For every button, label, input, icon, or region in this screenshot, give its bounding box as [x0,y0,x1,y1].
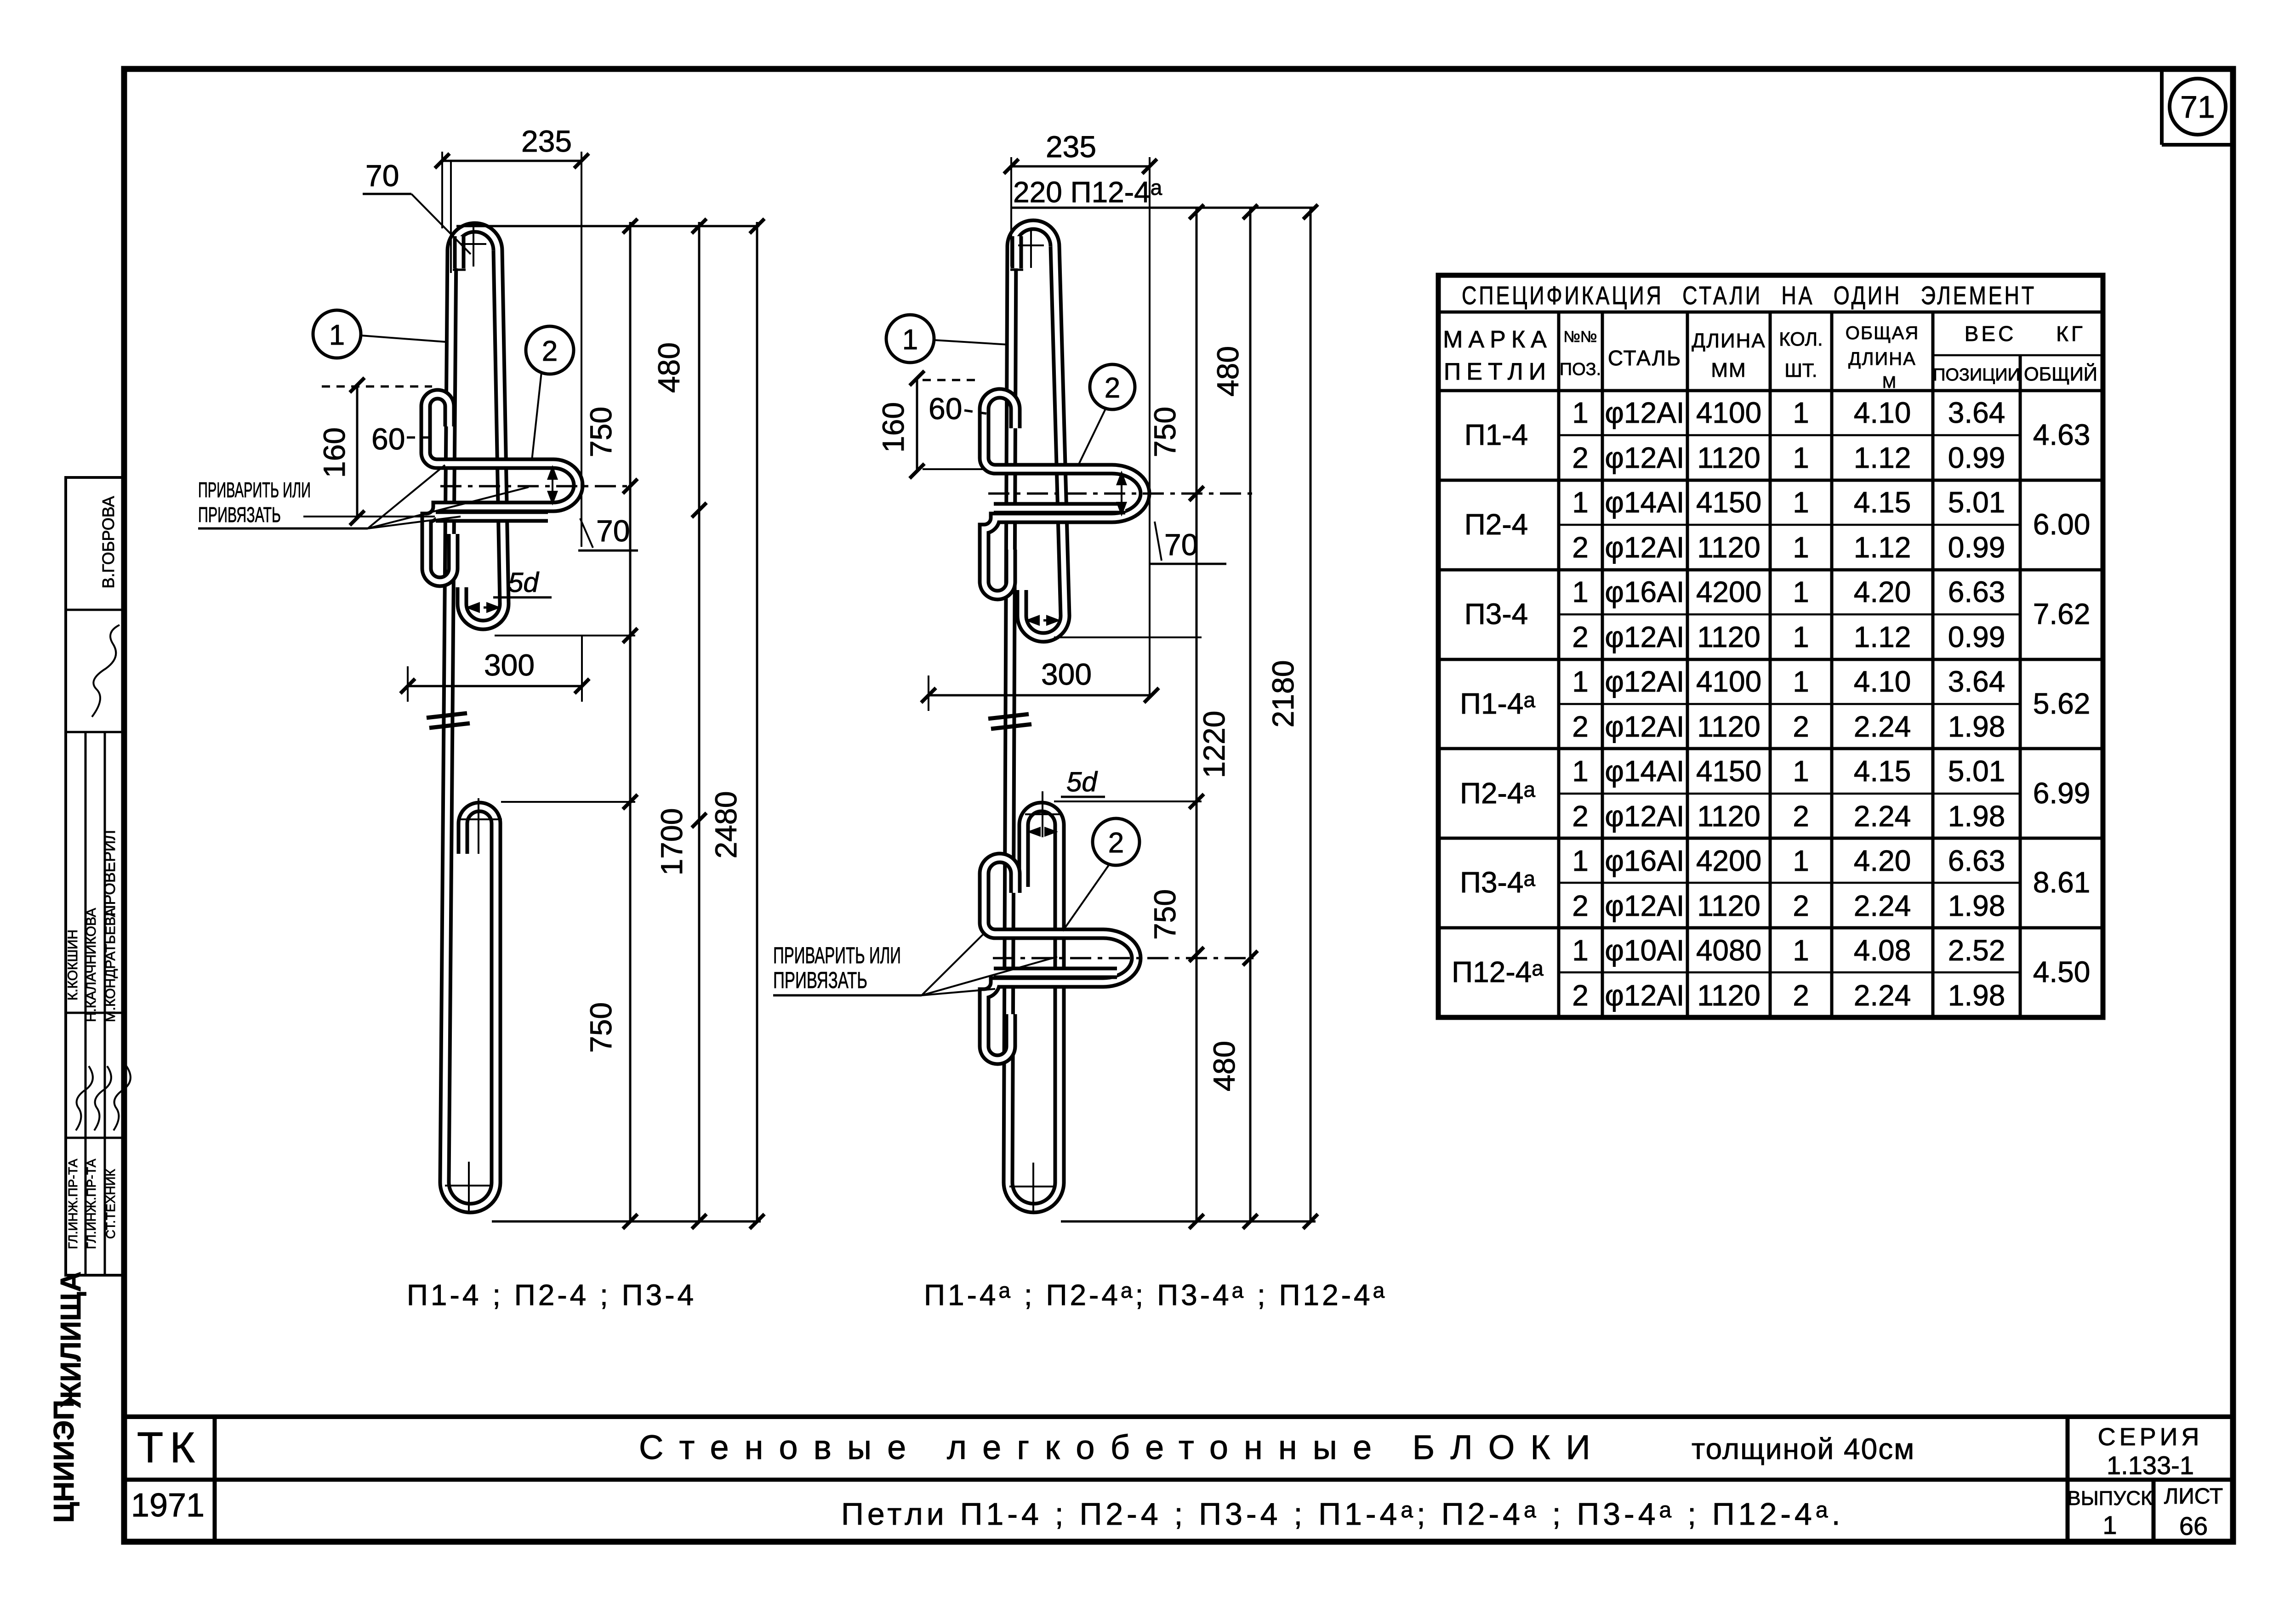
svg-text:1: 1 [1793,934,1809,967]
svg-text:2: 2 [1793,800,1809,833]
balloon 1 left [313,310,361,358]
svg-text:φ14АI: φ14АI [1605,486,1684,519]
svg-text:φ10АI: φ10АI [1605,934,1684,967]
svg-text:4200: 4200 [1696,575,1761,608]
bar pos1 right: end stub inside arch [1011,236,1023,268]
svg-text:φ12АI: φ12АI [1605,889,1684,922]
svg-text:1: 1 [1793,844,1809,877]
svg-text:МАРКА: МАРКА [1443,326,1552,353]
svg-text:7.62: 7.62 [2033,597,2091,630]
svg-text:СПЕЦИФИКАЦИЯ СТАЛИ НА ОДИН: СПЕЦИФИКАЦИЯ СТАЛИ НА ОДИН ЭЛЕМЕНТ [1462,281,2036,310]
stamp signatures middle [76,1066,93,1130]
svg-text:5.62: 5.62 [2033,687,2091,720]
dim 160 right [916,378,918,471]
svg-text:1120: 1120 [1697,441,1760,474]
svg-text:4.10: 4.10 [1854,665,1911,698]
svg-text:П2-4: П2-4 [1464,508,1528,541]
svg-text:70: 70 [596,514,630,548]
svg-text:480: 480 [1211,346,1245,397]
svg-text:ЛИСТ: ЛИСТ [2164,1484,2223,1509]
svg-text:2: 2 [542,335,558,367]
svg-text:СЕРИЯ: СЕРИЯ [2098,1423,2203,1451]
cross mark bottom U right [1009,1186,1056,1187]
table data [1452,396,2090,1012]
svg-text:ПЕТЛИ: ПЕТЛИ [1444,358,1551,385]
svg-text:М.КОНДРАТЬЕВА: М.КОНДРАТЬЕВА [103,908,118,1022]
svg-text:1.12: 1.12 [1854,620,1911,653]
svg-text:2.24: 2.24 [1854,889,1911,922]
svg-text:ПРИВАРИТЬ ИЛИ: ПРИВАРИТЬ ИЛИ [773,942,901,968]
stamp row line 3 [66,1012,124,1014]
svg-text:2: 2 [1572,800,1589,833]
bar pos1 left: top arch + long left leg + bottom U-loop + inner leg + top hook (left loop П1-4) [452,227,498,250]
svg-text:1: 1 [1793,755,1809,788]
svg-text:Н.КАЛАЧНИКОВА: Н.КАЛАЧНИКОВА [84,908,99,1022]
svg-text:2.24: 2.24 [1854,979,1911,1012]
svg-text:1: 1 [1793,665,1809,698]
svg-text:480: 480 [652,342,686,393]
svg-text:П1-4а ; П2-4а; П3-4а ; П12-: П1-4а ; П2-4а; П3-4а ; П12-4а [924,1278,1387,1311]
svg-text:160: 160 [317,427,351,478]
table ves split line [1933,354,2103,357]
svg-text:2180: 2180 [1266,660,1300,728]
svg-text:ПРИВЯЗАТЬ: ПРИВЯЗАТЬ [773,967,867,993]
svg-text:2: 2 [1793,710,1809,743]
stamp row line 2 [66,731,124,733]
svg-text:Петли П1-4 ; П2-4 ; П3-4 ; П1: Петли П1-4 ; П2-4 ; П3-4 ; П1-4а; П2-4а … [841,1497,1844,1532]
svg-text:1.98: 1.98 [1948,889,2005,922]
svg-text:φ12АI: φ12АI [1605,800,1684,833]
svg-text:ТК: ТК [137,1423,201,1471]
svg-text:2: 2 [1572,620,1589,653]
bottom extension line left [492,1221,761,1223]
svg-text:4200: 4200 [1696,844,1761,877]
svg-text:1: 1 [1793,620,1809,653]
title block divider ТК column [213,1417,217,1542]
svg-text:φ12АI: φ12АI [1605,531,1684,564]
svg-text:0.99: 0.99 [1948,441,2005,474]
svg-text:750: 750 [1148,889,1182,940]
stamp signature squiggle [92,625,120,717]
svg-text:235: 235 [1046,130,1096,164]
stamp inner vertical 2 [104,732,106,1275]
svg-text:1: 1 [1572,844,1589,877]
title block divider Серия column [2066,1417,2070,1542]
dim verticals left: 750 / 480 / 2480 [629,222,632,1223]
extension from J-hook bottom right [1054,636,1202,638]
extension from cane top right [1054,800,1202,802]
svg-text:750: 750 [1148,407,1182,457]
svg-text:1971: 1971 [131,1487,205,1524]
svg-text:160: 160 [876,402,910,453]
svg-text:φ16АI: φ16АI [1605,844,1684,877]
title block divider Выпуск/Лист [2152,1480,2156,1542]
svg-text:1: 1 [902,324,918,356]
cross mark top arch right [1018,244,1044,246]
svg-text:4150: 4150 [1696,755,1761,788]
dim 160 left [356,385,359,518]
svg-text:1: 1 [1572,665,1589,698]
svg-text:6.00: 6.00 [2033,508,2091,541]
svg-text:П1-4 ; П2-4 ; П3-4: П1-4 ; П2-4 ; П3-4 [407,1278,696,1311]
svg-text:4100: 4100 [1696,665,1761,698]
svg-text:1: 1 [1793,575,1809,608]
svg-text:Стеновые легкобетонные БЛОКИ: Стеновые легкобетонные БЛОКИтолщиной 40с… [639,1428,1915,1466]
svg-text:2: 2 [1572,710,1589,743]
stamp row line 1 [66,609,124,611]
break symbol on left bar [427,713,467,718]
svg-text:1120: 1120 [1697,531,1760,564]
balloon 2 right lower [1093,818,1139,865]
cross mark top arch left [461,243,486,245]
table title row line [1438,311,2103,314]
svg-text:1.98: 1.98 [1948,979,2005,1012]
balloon 1 right [886,315,934,363]
svg-text:3.64: 3.64 [1948,665,2005,698]
svg-text:ГЛ.ИНЖ.ПР-ТА: ГЛ.ИНЖ.ПР-ТА [84,1158,98,1249]
bar pos2 anchor2 right [984,858,1136,1060]
svg-text:71: 71 [2180,90,2215,125]
svg-text:φ14АI: φ14АI [1605,755,1684,788]
70 gap arrows inside U-turn left [552,468,553,503]
svg-text:КОЛ.: КОЛ. [1779,328,1823,350]
svg-text:1: 1 [2102,1510,2117,1539]
svg-text:2.24: 2.24 [1854,710,1911,743]
top reference line left [456,225,759,227]
svg-text:1120: 1120 [1697,889,1760,922]
svg-text:СТАЛЬ: СТАЛЬ [1608,346,1681,370]
centerline anchor1 right [988,493,1253,495]
svg-text:5.01: 5.01 [1948,755,2005,788]
svg-text:φ12АI: φ12АI [1605,979,1684,1012]
svg-text:1: 1 [1793,486,1809,519]
svg-text:2: 2 [1572,531,1589,564]
svg-text:ОБЩАЯ: ОБЩАЯ [1846,323,1919,343]
page number box [2160,69,2164,145]
svg-text:ГЛ.ИНЖ.ПР-ТА: ГЛ.ИНЖ.ПР-ТА [66,1158,80,1249]
svg-text:4.15: 4.15 [1854,486,1911,519]
svg-text:2: 2 [1105,372,1120,404]
extension from J-hook bottom left [495,635,635,636]
svg-text:1.12: 1.12 [1854,441,1911,474]
svg-text:М: М [1882,373,1896,392]
bar pos1 right: long left leg + bottom U + inner leg + cane hook [1008,245,1060,1208]
dashed arrow J-hook right [1029,619,1057,622]
svg-text:1.98: 1.98 [1948,710,2005,743]
svg-text:В.ГОБРОВА: В.ГОБРОВА [99,496,118,588]
svg-text:1.12: 1.12 [1854,531,1911,564]
cross mark cane right [1042,791,1043,837]
svg-text:1120: 1120 [1697,620,1760,653]
svg-text:1: 1 [1793,531,1809,564]
svg-text:ЦНИИЭП: ЦНИИЭП [48,1400,80,1523]
svg-text:4.08: 4.08 [1854,934,1911,967]
svg-text:3.64: 3.64 [1948,396,2005,429]
title block middle line [124,1478,2233,1482]
svg-text:ОБЩИЙ: ОБЩИЙ [2024,363,2097,385]
table outer border [1438,275,2103,1017]
centerline anchor2 right [993,957,1253,959]
stamp row line 4 [66,1137,124,1139]
balloon 2 right upper [1090,364,1135,409]
title block top line [124,1414,2233,1419]
svg-text:1.98: 1.98 [1948,800,2005,833]
stamp column outer box [66,477,124,1275]
svg-text:300: 300 [484,648,535,682]
svg-text:2.52: 2.52 [1948,934,2005,967]
svg-text:СТ.ТЕХНИК: СТ.ТЕХНИК [103,1169,118,1239]
svg-text:№№: №№ [1564,328,1597,346]
dim verticals right: 750 480 1220 2180 [1196,208,1198,1223]
svg-text:φ12АI: φ12АI [1605,441,1684,474]
svg-text:ШТ.: ШТ. [1784,359,1817,381]
svg-text:1700: 1700 [655,808,689,876]
bar pos2 anchor1 right [984,393,1145,595]
svg-text:П1-4: П1-4 [1464,418,1528,451]
svg-text:480: 480 [1207,1041,1241,1091]
svg-text:6.63: 6.63 [1948,575,2005,608]
svg-text:4100: 4100 [1696,396,1761,429]
svg-text:φ12АI: φ12АI [1605,665,1684,698]
svg-text:ПОЗ.: ПОЗ. [1560,360,1601,379]
svg-text:8.61: 8.61 [2033,866,2091,899]
svg-text:К.КОКШИН: К.КОКШИН [65,930,80,1000]
svg-text:2: 2 [1793,889,1809,922]
svg-text:1: 1 [1572,575,1589,608]
table group lines [1438,479,2103,482]
svg-text:2: 2 [1572,441,1589,474]
svg-text:2: 2 [1572,979,1589,1012]
balloon 2 left [526,326,574,374]
bottom extension line right [1061,1221,1316,1223]
svg-text:П3-4: П3-4 [1464,597,1528,630]
bar pos2 anchor left: doubled lower run [436,511,548,523]
svg-text:4080: 4080 [1696,934,1761,967]
svg-text:2.24: 2.24 [1854,800,1911,833]
svg-text:1: 1 [1572,486,1589,519]
svg-text:φ12АI: φ12АI [1605,620,1684,653]
svg-text:ВЕС: ВЕС [1965,322,2017,346]
svg-text:ММ: ММ [1711,359,1746,381]
svg-text:1: 1 [1572,755,1589,788]
svg-text:5d: 5d [508,567,539,598]
svg-text:1120: 1120 [1697,800,1760,833]
svg-text:1220: 1220 [1197,711,1231,778]
svg-text:φ16АI: φ16АI [1605,575,1684,608]
svg-text:φ12АI: φ12АI [1605,396,1684,429]
svg-text:2480: 2480 [709,791,743,859]
svg-text:4.50: 4.50 [2033,955,2091,988]
svg-text:φ12АI: φ12АI [1605,710,1684,743]
70 gap arrows anchor1 right [1121,473,1122,514]
svg-text:4.63: 4.63 [2033,418,2091,451]
bar pos2 anchor left: S-wrap with hooks [426,394,578,582]
svg-text:ПРИВЯЗАТЬ: ПРИВЯЗАТЬ [198,503,281,527]
svg-text:750: 750 [584,407,618,457]
table column lines [1557,312,1561,1017]
svg-text:0.99: 0.99 [1948,531,2005,564]
svg-text:4.20: 4.20 [1854,844,1911,877]
svg-text:0.99: 0.99 [1948,620,2005,653]
svg-text:70: 70 [1164,528,1198,562]
svg-text:220 П12-4а: 220 П12-4а [1013,176,1162,209]
svg-text:4150: 4150 [1696,486,1761,519]
svg-text:70: 70 [365,159,399,193]
bar pos1 right: right leg + J hook [1022,246,1065,637]
svg-text:5d: 5d [1066,766,1098,797]
stamp inner vertical 1 [85,732,87,1275]
svg-text:ПРОВЕРИЛ: ПРОВЕРИЛ [101,830,119,916]
svg-text:ПОЗИЦИИ: ПОЗИЦИИ [1933,365,2020,385]
table header bottom line [1438,389,2103,392]
anchor1 doubled run right [994,502,1125,515]
svg-text:1: 1 [329,319,345,351]
svg-text:300: 300 [1041,657,1092,691]
svg-text:60: 60 [929,392,962,426]
centerline left anchor [440,485,630,488]
svg-text:ЖИЛИЩА: ЖИЛИЩА [55,1272,87,1408]
svg-text:ДЛИНА: ДЛИНА [1848,349,1916,369]
break symbol on right bar [988,714,1029,719]
svg-text:1120: 1120 [1697,979,1760,1012]
svg-text:1120: 1120 [1697,710,1760,743]
extension from cane top left [501,801,635,803]
svg-text:2: 2 [1572,889,1589,922]
svg-text:2: 2 [1793,979,1809,1012]
cross mark cane hook left [457,818,502,820]
svg-text:5.01: 5.01 [1948,486,2005,519]
bar pos1 right: top arch [1012,225,1055,246]
svg-text:750: 750 [584,1002,618,1053]
svg-text:4.20: 4.20 [1854,575,1911,608]
anchor2 doubled run right [994,967,1117,979]
svg-text:1: 1 [1793,396,1809,429]
svg-text:66: 66 [2179,1511,2208,1540]
svg-text:П12-4а: П12-4а [1452,955,1544,988]
table half-row lines [1559,434,2020,437]
svg-text:ДЛИНА: ДЛИНА [1692,329,1766,352]
svg-text:КГ: КГ [2056,322,2085,346]
page number circle 71 [2170,79,2226,135]
svg-text:1: 1 [1572,934,1589,967]
svg-text:6.99: 6.99 [2033,777,2091,810]
svg-text:4.15: 4.15 [1854,755,1911,788]
svg-text:1: 1 [1572,396,1589,429]
svg-text:4.10: 4.10 [1854,396,1911,429]
cross mark bottom U left [445,1185,492,1187]
svg-text:1: 1 [1793,441,1809,474]
bar pos1 left: 70mm end stub inside arch [453,236,466,268]
svg-text:235: 235 [521,124,572,158]
svg-text:ВЫПУСК: ВЫПУСК [2067,1487,2153,1510]
svg-text:6.63: 6.63 [1948,844,2005,877]
svg-text:1.133-1: 1.133-1 [2107,1451,2194,1480]
svg-text:60: 60 [371,422,405,456]
svg-text:ПРИВАРИТЬ ИЛИ: ПРИВАРИТЬ ИЛИ [198,478,311,502]
svg-text:2: 2 [1108,827,1124,859]
